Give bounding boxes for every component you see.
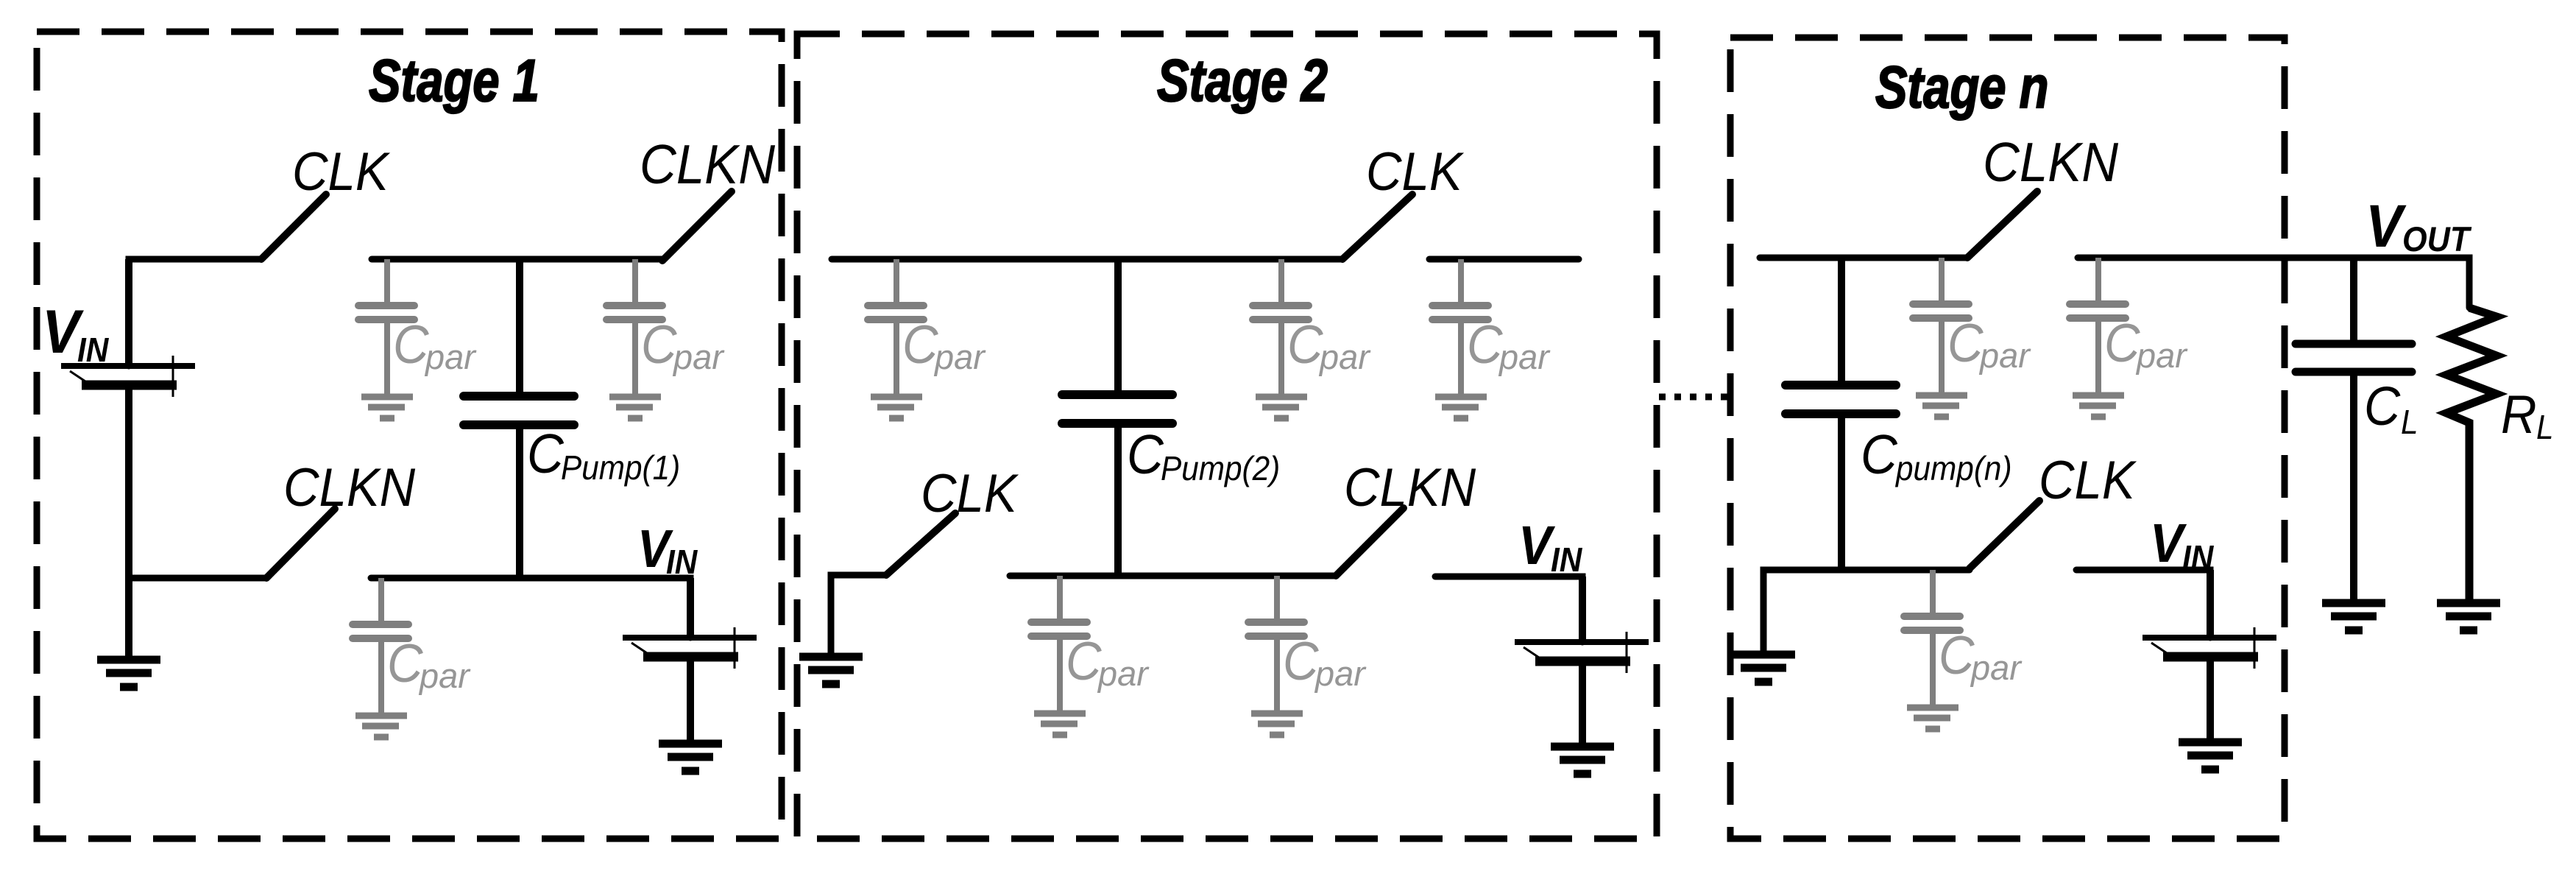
- svg-text:Pump(2): Pump(2): [1161, 450, 1280, 487]
- switch CLK (stage 2 top): [1342, 194, 1412, 259]
- label Cpar (stage 1 top left): [393, 314, 477, 376]
- svg-text:OUT: OUT: [2402, 219, 2472, 258]
- svg-text:pump(n): pump(n): [1894, 450, 2011, 487]
- wire bottom plate rail (stage 2): [1010, 573, 1336, 579]
- label Cpar (stage n top left): [1947, 313, 2031, 375]
- svg-text:Stage n: Stage n: [1875, 53, 2048, 120]
- svg-text:C: C: [387, 633, 424, 693]
- ground (stage n bottom left): [1732, 655, 1795, 682]
- svg-text:C: C: [1861, 424, 1898, 485]
- wire top plate rail (stage 2): [832, 256, 1342, 263]
- svg-text:C: C: [902, 314, 939, 374]
- svg-text:C: C: [641, 314, 678, 374]
- switch CLKN (stage 2 bottom): [1336, 508, 1404, 576]
- wire VIN feed (stage n): [2076, 570, 2210, 638]
- svg-text:CLK: CLK: [292, 141, 391, 201]
- svg-text:L: L: [2536, 409, 2554, 446]
- resistor RL: [2446, 308, 2497, 603]
- ground (CL): [2322, 603, 2385, 630]
- switch CLK (stage n bottom): [1970, 501, 2039, 568]
- label Cpar (stage 1 bottom): [387, 633, 471, 695]
- capacitor CPump(1): [464, 259, 574, 578]
- label CPump(2): [1127, 424, 1280, 487]
- ground (stage n battery): [2179, 742, 2242, 769]
- svg-text:V: V: [2366, 192, 2407, 260]
- svg-text:par: par: [1498, 337, 1551, 376]
- svg-text:C: C: [1947, 313, 1984, 373]
- wire VIN top vertical (stage 1): [129, 259, 261, 366]
- label VIN (stage 1 right): [637, 518, 698, 581]
- node VOUT label: [2366, 192, 2472, 260]
- svg-text:Stage 2: Stage 2: [1157, 46, 1328, 113]
- capacitor Cpar (stage 2 top right): [1432, 259, 1488, 394]
- ground (stage 1 left battery): [97, 660, 160, 687]
- label VIN (stage n): [2150, 513, 2214, 577]
- svg-text:C: C: [2104, 313, 2141, 373]
- wire CLK switch feed (stage 2 bottom left): [831, 575, 886, 657]
- ground (Cpar stage 1 top right): [609, 397, 661, 418]
- label Cpar (stage n top right): [2104, 313, 2188, 375]
- svg-text:Stage 1: Stage 1: [369, 46, 539, 113]
- ground (stage 1 right battery): [659, 744, 722, 771]
- voltage source VIN battery (stage n): [2142, 570, 2276, 742]
- ground (Cpar stage 1 top left): [361, 397, 413, 418]
- ground (stage 2 bottom left): [799, 657, 863, 684]
- label Cpar (stage 2 top middle): [1287, 314, 1371, 376]
- label RL: [2501, 384, 2554, 446]
- svg-text:par: par: [1970, 648, 2023, 687]
- capacitor Cpar (stage 2 top middle): [1253, 259, 1309, 394]
- svg-text:CLKN: CLKN: [640, 134, 776, 195]
- capacitor Cpump(n): [1786, 258, 1896, 570]
- svg-text:C: C: [1127, 424, 1164, 485]
- ground (Cpar stage 2 bottom left): [1034, 713, 1086, 735]
- switch CLKN (stage 1 bottom): [266, 509, 335, 578]
- capacitor Cpar (stage n bottom): [1904, 570, 1960, 705]
- svg-text:par: par: [1097, 654, 1150, 693]
- svg-text:R: R: [2501, 384, 2537, 444]
- capacitor Cpar (stage n top left): [1913, 258, 1969, 392]
- capacitor CPump(2): [1062, 259, 1172, 576]
- wire bottom plate rail (stage n): [1763, 570, 1970, 655]
- svg-text:par: par: [1314, 654, 1367, 693]
- voltage source VIN battery (stage 1 left): [61, 259, 195, 660]
- ground (Cpar stage 2 top middle): [1256, 397, 1307, 418]
- ground (Cpar stage 2 top right): [1435, 397, 1487, 418]
- ground (stage 2 battery): [1551, 747, 1614, 774]
- Stage n boundary box: [1730, 38, 2285, 839]
- svg-text:par: par: [933, 337, 986, 376]
- svg-text:IN: IN: [666, 543, 698, 581]
- Stage 2 boundary box: [797, 34, 1657, 839]
- label Cpar (stage 1 top right): [641, 314, 725, 376]
- switch CLKN (stage 1 top): [662, 191, 732, 261]
- label CL: [2364, 376, 2418, 441]
- capacitor Cpar (stage 2 top left): [868, 259, 924, 394]
- svg-text:Pump(1): Pump(1): [561, 449, 680, 487]
- wire CLKN switch feed (stage 1 bottom): [129, 575, 266, 582]
- wire top right segment (stage 2): [1429, 256, 1579, 263]
- label Cpar (stage 2 bottom left): [1066, 631, 1150, 693]
- ground (Cpar stage 2 bottom right): [1251, 713, 1303, 735]
- voltage source VIN battery (stage 2): [1515, 577, 1649, 747]
- wire dotted inter-stage connector: [1659, 394, 1727, 401]
- svg-text:par: par: [1978, 336, 2031, 375]
- svg-text:C: C: [1283, 631, 1320, 691]
- label Cpump(n): [1861, 424, 2012, 487]
- wire bottom plate rail (stage 1): [371, 578, 690, 638]
- capacitor CL: [2296, 258, 2412, 603]
- svg-text:par: par: [418, 656, 471, 695]
- svg-text:C: C: [1467, 314, 1504, 374]
- svg-text:C: C: [527, 423, 565, 484]
- switch CLK (stage 2 bottom): [886, 513, 955, 575]
- svg-text:C: C: [393, 314, 430, 374]
- capacitor Cpar (stage 1 top left): [358, 259, 414, 394]
- svg-text:par: par: [672, 337, 725, 376]
- svg-text:CLK: CLK: [2039, 450, 2137, 510]
- Stage 1 boundary box: [37, 32, 782, 839]
- svg-text:par: par: [2135, 336, 2188, 375]
- switch CLK (stage 1 top): [261, 194, 326, 259]
- capacitor Cpar (stage 1 bottom): [353, 578, 408, 713]
- svg-text:par: par: [1318, 337, 1371, 376]
- capacitor Cpar (stage 2 bottom left): [1031, 576, 1087, 711]
- label Cpar (stage 2 bottom right): [1283, 631, 1367, 693]
- wire VIN feed (stage 2): [1435, 577, 1582, 642]
- svg-text:C: C: [1939, 625, 1975, 685]
- ground (Cpar stage n bottom): [1907, 708, 1958, 729]
- svg-text:L: L: [2401, 403, 2418, 441]
- svg-text:par: par: [424, 337, 477, 376]
- ground (RL): [2437, 603, 2500, 630]
- capacitor Cpar (stage 2 bottom right): [1248, 576, 1304, 711]
- label Cpar (stage n bottom): [1939, 625, 2023, 687]
- ground (Cpar stage n top right): [2073, 395, 2124, 417]
- svg-text:CLKN: CLKN: [283, 457, 415, 517]
- svg-text:CLKN: CLKN: [1983, 132, 2119, 193]
- svg-text:CLKN: CLKN: [1344, 457, 1476, 517]
- label CPump(1): [527, 423, 680, 487]
- label VIN (stage 1 left): [42, 297, 109, 369]
- svg-text:C: C: [1066, 631, 1103, 691]
- svg-text:IN: IN: [1551, 541, 1582, 579]
- label VIN (stage 2): [1518, 515, 1582, 579]
- wire top plate rail (stage 1): [372, 256, 662, 263]
- svg-text:CLK: CLK: [1366, 141, 1465, 201]
- label Cpar (stage 2 top right): [1467, 314, 1551, 376]
- ground (Cpar stage 1 bottom): [355, 716, 407, 737]
- voltage source VIN battery (stage 1 right): [623, 578, 757, 744]
- svg-text:C: C: [2364, 376, 2401, 437]
- ground (Cpar stage 2 top left): [871, 397, 922, 418]
- wire output rail VOUT (stage n to load): [2078, 258, 2469, 308]
- wire top plate rail left (stage n): [1760, 255, 1967, 261]
- svg-text:C: C: [1287, 314, 1324, 374]
- switch CLKN (stage n top): [1967, 191, 2037, 258]
- ground (Cpar stage n top left): [1916, 395, 1967, 417]
- capacitor Cpar (stage 1 top right): [606, 259, 662, 394]
- capacitor Cpar (stage n top right): [2070, 258, 2126, 392]
- label Cpar (stage 2 top left): [902, 314, 986, 376]
- svg-text:CLK: CLK: [921, 463, 1019, 523]
